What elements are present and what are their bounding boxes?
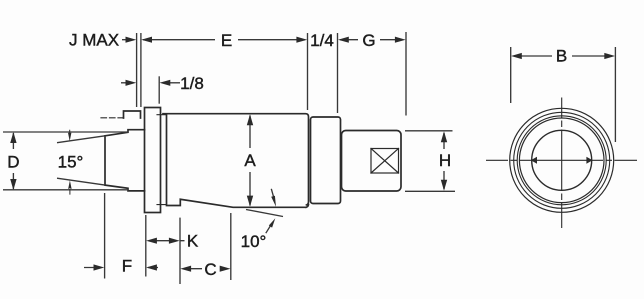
1/8 row: left leader — [121, 82, 133, 84]
dimension A line — [249, 116, 251, 206]
arrowhead H up — [441, 131, 447, 142]
svg-text:J MAX: J MAX — [69, 31, 119, 50]
horizontal centerline — [486, 159, 637, 161]
1/4 extension line — [337, 33, 339, 113]
arrowhead 1/8 left — [160, 80, 171, 86]
svg-text:B: B — [556, 47, 567, 66]
arrowhead E left — [141, 37, 152, 43]
svg-text:A: A — [244, 151, 256, 170]
G right extension line — [405, 32, 407, 116]
arrowhead 1/8 leader right — [126, 80, 137, 86]
arrowhead B left — [511, 53, 522, 59]
arrowhead E right — [296, 37, 307, 43]
arrowhead D up — [10, 132, 16, 143]
1/8 leader shaft — [170, 82, 181, 84]
dimension D line — [12, 133, 14, 189]
J extension line 2 — [140, 33, 142, 107]
F right / K left extension line — [145, 215, 147, 277]
svg-text:F: F — [122, 257, 132, 276]
svg-text:E: E — [221, 31, 232, 50]
dimension E line — [143, 39, 305, 41]
dimension D extension lines — [3, 132, 129, 190]
dimension H extension lines — [405, 131, 455, 192]
top dimension row: J MAX leader — [122, 39, 134, 41]
outer circle — [510, 108, 614, 212]
arrowhead K left — [146, 238, 157, 244]
svg-text:D: D — [7, 153, 19, 172]
dimension B extension lines — [511, 47, 616, 142]
C right extension line — [230, 213, 232, 280]
svg-text:10°: 10° — [241, 232, 267, 251]
knurl square with X — [371, 149, 399, 174]
medium cylinder section — [311, 117, 341, 204]
F left extension line — [104, 193, 106, 279]
arrowhead G left — [338, 37, 349, 43]
arrowhead F left — [146, 264, 157, 270]
10 degree leader arrows — [266, 189, 275, 233]
dimension B line — [515, 55, 611, 57]
arrowhead A up — [247, 114, 253, 125]
arrowhead K right — [169, 238, 180, 244]
svg-text:K: K — [187, 232, 199, 251]
1/8 extension line — [158, 76, 160, 103]
arrowhead C right — [220, 266, 231, 272]
dimension G line — [340, 39, 403, 41]
key tab on flange face — [124, 111, 141, 118]
arrowhead 10deg lower — [269, 218, 276, 227]
J extension line 1 — [136, 33, 138, 107]
arrowhead H down — [441, 180, 447, 191]
15 degree taper extension lines — [57, 136, 105, 185]
K right / C left extension line — [179, 218, 181, 284]
arrowhead G right — [395, 37, 406, 43]
svg-text:H: H — [439, 151, 451, 170]
svg-text:C: C — [204, 260, 216, 279]
C dimension line — [184, 268, 227, 270]
ring circle 2 — [514, 112, 610, 208]
svg-text:15°: 15° — [58, 153, 84, 172]
neck groove between flange and body — [157, 115, 167, 205]
F dimension leaders — [84, 267, 158, 269]
ring circle 3 — [517, 116, 606, 205]
svg-text:1/4: 1/4 — [310, 31, 334, 50]
svg-text:1/8: 1/8 — [180, 74, 204, 93]
arrowhead A down — [247, 196, 253, 207]
pin P1 front contact outline — [105, 130, 145, 191]
main body outline — [163, 114, 309, 208]
bayonet lug right — [586, 157, 592, 164]
arrowhead F right — [94, 264, 105, 270]
inner bore circle — [532, 130, 592, 190]
svg-text:G: G — [362, 31, 375, 50]
ring circle 4 — [519, 118, 604, 203]
arrowhead 15deg bottom — [68, 180, 71, 194]
arrowhead D down — [10, 179, 16, 190]
end cylinder section — [342, 131, 402, 192]
arrowhead B right — [604, 53, 615, 59]
K dimension line — [150, 240, 185, 242]
bayonet lug left — [531, 157, 537, 164]
arrowhead 10deg upper — [271, 196, 276, 207]
E right extension line — [307, 33, 309, 110]
arrowhead J MAX right — [126, 37, 137, 43]
arrowhead 15deg top — [68, 130, 71, 141]
hidden edge dashed line of key slot — [101, 117, 124, 119]
arrowhead C left — [180, 266, 191, 272]
10 degree extended taper line — [246, 210, 283, 217]
vertical centerline — [561, 98, 563, 229]
dimension H line — [443, 133, 445, 189]
flange — [145, 108, 161, 213]
